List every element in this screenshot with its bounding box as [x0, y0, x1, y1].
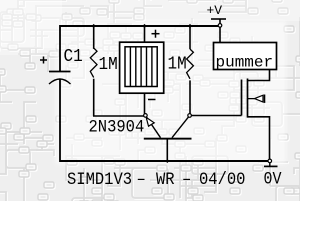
transistor Q2 MOSFET [242, 79, 265, 118]
wire bottom 0V rail [60, 160, 268, 162]
wire 0V stub [269, 163, 271, 167]
wire solar cell bottom lead [144, 93, 146, 114]
transistor Q1 2N3904 [144, 117, 192, 160]
svg-text:2N3904: 2N3904 [89, 117, 145, 137]
wire left branch upper (C1 top lead) [59, 25, 61, 72]
resistor R2 1M (right) [187, 26, 194, 114]
svg-text:C1: C1 [64, 47, 83, 67]
svg-text:1M: 1M [99, 55, 118, 75]
resistor R1 1M (left) [90, 26, 97, 116]
label title SIMD1V3 - WR - 04/00 [67, 170, 245, 190]
node Q1 emitter junction circle [144, 114, 148, 118]
svg-text:0V: 0V [264, 170, 282, 189]
node +V junction circle [218, 24, 222, 28]
wire top +V rail [60, 25, 218, 27]
solar cell plus mark [152, 30, 160, 38]
wire pummer to MOSFET drain [248, 70, 270, 81]
svg-text:–: – [182, 170, 191, 190]
svg-text:1M: 1M [168, 54, 187, 74]
svg-text:04/00: 04/00 [199, 170, 245, 190]
pummer module box [214, 43, 277, 70]
+V terminal bar [211, 18, 226, 20]
wire left branch lower (C1 bottom lead) [59, 80, 61, 163]
wire gate to Q1 collector node [192, 115, 242, 117]
wire +V to pummer [219, 19, 221, 43]
svg-text:WR: WR [156, 170, 175, 190]
node junction top rail / R2 [188, 24, 192, 28]
svg-text:+V: +V [207, 3, 223, 18]
node junction top rail / R1 [92, 24, 96, 28]
node junction top rail / solar cell [142, 24, 146, 28]
node Q1 collector junction circle [188, 114, 192, 118]
node junction base / 0V rail [165, 159, 169, 163]
svg-text:SIMD1V3: SIMD1V3 [67, 170, 132, 190]
wire solar cell top lead [144, 26, 146, 42]
svg-text:pummer: pummer [216, 54, 274, 72]
svg-text:–: – [137, 170, 146, 190]
solar cell minus mark [148, 99, 156, 101]
node 0V junction circle [268, 159, 272, 163]
0V terminal bar [264, 165, 278, 167]
solar cell SC1 [120, 42, 164, 93]
wire MOSFET source to 0V rail [248, 117, 270, 159]
wire R1 bottom to emitter node [93, 115, 144, 117]
capacitor C1 [40, 57, 71, 85]
